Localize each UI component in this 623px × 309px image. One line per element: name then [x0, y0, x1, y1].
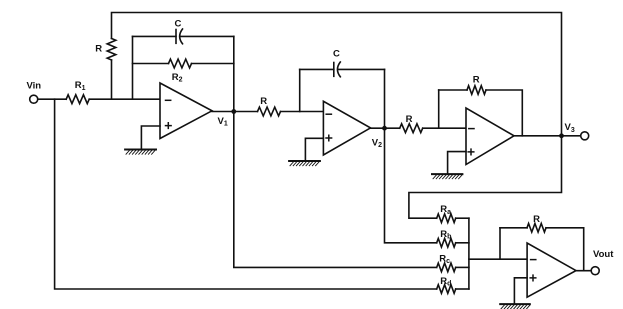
wire bus to U4 inverting input: [469, 258, 527, 260]
resistor R2: [169, 59, 192, 68]
wire V3 down-left to Ra: [409, 136, 562, 218]
svg-text:Vin: Vin: [27, 81, 42, 92]
plus U4: [530, 275, 536, 281]
node V2 junction: [382, 126, 387, 131]
wire Vin to R1: [38, 98, 66, 100]
resistor R (V2 to U3): [400, 124, 423, 133]
capacitor C (U1 feedback): [176, 29, 183, 44]
svg-text:C: C: [175, 19, 182, 30]
wire U4 feedback left vertical: [499, 228, 501, 259]
minus U3: [469, 128, 474, 130]
ground (U4): [500, 304, 530, 309]
wire U4 output to terminal: [576, 270, 591, 272]
wire R2 right lead: [192, 63, 234, 65]
wire U1 plus input to ground stem: [141, 126, 160, 149]
svg-text:R: R: [95, 43, 102, 54]
svg-text:C: C: [333, 49, 340, 60]
resistor Rd: [437, 285, 456, 294]
wire R2 left lead: [133, 63, 169, 65]
minus U1: [166, 99, 171, 101]
resistor Rc: [437, 263, 456, 272]
wire R to U3 inverting input: [423, 127, 466, 129]
wire U3 feedback left vertical: [438, 90, 440, 128]
wire summing bus: [468, 218, 470, 289]
terminal Vout: [591, 267, 599, 275]
wire U4 feedback top left lead: [500, 227, 527, 229]
wire U2 output to R: [371, 127, 400, 129]
svg-text:R: R: [260, 96, 267, 107]
terminal V3: [581, 132, 589, 140]
wire C2 left lead: [300, 68, 334, 70]
op-amp U3: [466, 108, 514, 165]
wire C1 left lead: [133, 35, 177, 37]
wire top feedback from V3 to node A: [112, 13, 562, 136]
node V3 junction: [559, 133, 564, 138]
wire R to U2 inverting input: [281, 111, 324, 113]
wire Vin node down to bottom rail toward Rd: [55, 99, 437, 289]
resistor R (vertical, input summing): [107, 39, 116, 61]
wire Ra to bus: [456, 217, 469, 219]
wire V1 down to Rc: [234, 112, 437, 268]
resistor R (U4 feedback): [527, 224, 546, 233]
resistor Rb: [437, 239, 456, 248]
wire U2 plus input to ground stem: [305, 138, 323, 160]
wire U4 plus input to ground stem: [514, 278, 527, 304]
terminal Vin: [30, 95, 38, 103]
op-amp U1: [160, 83, 212, 139]
wire U3 output to terminal: [514, 135, 581, 137]
plus U2: [326, 135, 332, 141]
wire U3 feedback top right lead: [486, 90, 522, 136]
op-amp U4: [527, 243, 576, 297]
ground (U1): [125, 150, 156, 155]
wire feedback left vertical (node to C and R2): [132, 36, 134, 99]
wire Rc to bus: [456, 266, 469, 268]
wire Rb to bus: [456, 242, 469, 244]
wire U4 feedback top right lead: [546, 228, 584, 271]
plus U3: [468, 149, 474, 155]
minus U4: [531, 259, 536, 261]
minus U2: [326, 113, 331, 115]
wire U3 feedback top left lead: [439, 89, 467, 91]
svg-text:R: R: [473, 75, 480, 86]
wire R bottom to input node: [111, 60, 113, 99]
svg-text:Vout: Vout: [593, 249, 614, 260]
svg-text:R: R: [533, 214, 540, 225]
wire feedback right vertical down to V1 node: [233, 36, 235, 111]
resistor R (U3 feedback): [467, 86, 486, 95]
capacitor C (U2 feedback): [334, 62, 341, 77]
wire Rd to bus: [456, 288, 469, 290]
svg-text:R: R: [406, 114, 413, 125]
ground (U2): [289, 161, 320, 166]
wire C1 right lead: [181, 35, 234, 37]
wire C2 feedback right vertical to V2 node: [384, 69, 386, 128]
node V1 junction: [231, 109, 236, 114]
wire U1 output to R: [212, 111, 258, 113]
resistor Ra: [437, 214, 456, 223]
resistor R1: [66, 95, 89, 104]
ground (U3): [432, 174, 462, 179]
plus U1: [166, 123, 172, 129]
wire U3 plus input to ground stem: [448, 152, 466, 174]
wire R1 to op-amp U1 inverting input: [89, 98, 160, 100]
op-amp U2: [323, 101, 370, 155]
wire V2 down to Rb: [385, 128, 437, 243]
wire C2 right lead: [339, 68, 385, 70]
wire C2 feedback left vertical: [299, 69, 301, 111]
resistor R (V1 to U2): [258, 107, 281, 116]
